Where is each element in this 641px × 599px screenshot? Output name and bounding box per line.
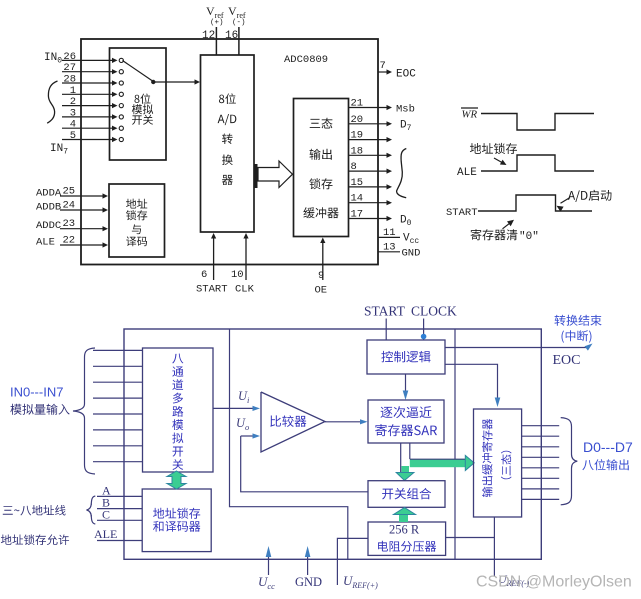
- svg-text:IN0: IN0: [44, 52, 62, 66]
- wire output D6: [522, 488, 560, 490]
- switch tree box: [368, 481, 445, 508]
- wire IN6 (pin 4): [62, 126, 123, 131]
- wire pin 16: [238, 27, 240, 55]
- wire buffer ref to ladder: [446, 517, 495, 538]
- label 转换结束: [554, 315, 601, 326]
- pin number 13: [383, 242, 396, 254]
- label CLOCK: [411, 304, 457, 319]
- wire control to SAR: [403, 374, 409, 400]
- svg-text:Uo: Uo: [236, 416, 249, 432]
- svg-text:10: 10: [231, 269, 244, 281]
- svg-text:3: 3: [70, 107, 76, 119]
- tri-state output latch box U-LATCH: [294, 99, 349, 237]
- pin number 17: [351, 209, 364, 221]
- svg-text:START: START: [196, 284, 228, 296]
- output buffer box: [474, 409, 522, 517]
- wire output D5: [522, 477, 560, 479]
- svg-text:9: 9: [318, 270, 324, 282]
- svg-text:18: 18: [351, 145, 364, 157]
- wire input IN1: [93, 365, 143, 367]
- label Vcc: [403, 233, 419, 247]
- label 地址锁存和译码器: [153, 508, 200, 532]
- label ALE (timing): [457, 167, 477, 179]
- svg-text:(+): (+): [210, 19, 224, 27]
- wire switch to A/D: [153, 79, 200, 84]
- svg-text:CSDN @MorleyOlsen: CSDN @MorleyOlsen: [476, 574, 632, 591]
- green double arrow mux-decoder: [167, 471, 186, 489]
- label D0---D7: [583, 439, 633, 455]
- svg-text:17: 17: [351, 209, 364, 221]
- svg-text:Msb: Msb: [396, 104, 415, 116]
- svg-text:6: 6: [201, 269, 207, 281]
- svg-text:ADDC: ADDC: [36, 220, 61, 232]
- svg-text:OE: OE: [315, 285, 328, 297]
- label START (bottom): [364, 304, 406, 319]
- label 输出缓冲寄存器 (rotated): [482, 419, 493, 497]
- svg-text:15: 15: [351, 177, 364, 189]
- 256R ladder box: [368, 522, 446, 555]
- svg-text:26: 26: [63, 51, 76, 63]
- svg-text:C: C: [102, 507, 110, 521]
- wire output D7: [522, 498, 560, 500]
- label Uref+: [343, 573, 378, 590]
- label 比较器: [270, 415, 306, 427]
- label 模拟量输入: [10, 404, 69, 415]
- pin number 21: [351, 98, 364, 110]
- pin number 22: [63, 235, 76, 247]
- wire output D4: [522, 467, 560, 469]
- label 地址锁存与译码: [126, 199, 147, 247]
- label OE: [315, 285, 328, 297]
- wire Uo feedback: [241, 436, 368, 492]
- pin number 7: [380, 60, 386, 72]
- pin number 25: [63, 186, 76, 198]
- svg-text:CLK: CLK: [235, 284, 255, 296]
- svg-text:23: 23: [63, 218, 76, 230]
- svg-text:4: 4: [70, 119, 76, 131]
- wire GND arrow: [305, 546, 311, 575]
- bus bar on A/D edge: [254, 164, 258, 188]
- svg-text:IN0---IN7: IN0---IN7: [10, 385, 63, 400]
- outer structure box: [124, 329, 541, 559]
- svg-text:D0: D0: [400, 215, 412, 229]
- label GND (bottom): [295, 575, 322, 589]
- pin number 26: [63, 51, 76, 63]
- label ALE (bottom): [94, 527, 117, 541]
- svg-text:ALE: ALE: [94, 527, 117, 541]
- svg-text:27: 27: [63, 62, 76, 74]
- svg-text:13: 13: [383, 242, 396, 254]
- svg-text:14: 14: [351, 193, 364, 205]
- wire OE (pin 9): [320, 238, 325, 281]
- pin number 27: [63, 62, 76, 74]
- wire input IN0: [93, 349, 143, 351]
- label START: [196, 284, 228, 296]
- annotation arrow to ALE edge: [494, 158, 507, 165]
- svg-text:ADDA: ADDA: [36, 188, 62, 200]
- wire data out (pin 19): [349, 137, 393, 142]
- label Msb: [396, 104, 415, 116]
- pin number 2: [70, 96, 76, 108]
- svg-text:12: 12: [202, 30, 215, 42]
- pin number 8: [351, 161, 357, 173]
- pin number 1: [70, 85, 76, 97]
- wire input IN7: [93, 461, 143, 463]
- pin number 16: [225, 30, 238, 42]
- annotation arrow to START rising edge: [503, 220, 515, 229]
- junction dot CLOCK: [421, 334, 427, 340]
- pin number 11: [383, 227, 396, 239]
- svg-text:WR: WR: [462, 109, 478, 121]
- wire A: [97, 495, 142, 497]
- label (三态) (rotated): [501, 451, 512, 480]
- svg-text:24: 24: [63, 200, 76, 212]
- input squiggle brace: [47, 81, 57, 123]
- wire Ucc: [266, 546, 272, 575]
- annotation arrow to START falling edge: [557, 198, 571, 212]
- wire ALE (pin 22): [60, 242, 108, 247]
- label 八通道多路模拟开关: [172, 354, 183, 470]
- pin number 23: [63, 218, 76, 230]
- hollow bus arrow: [258, 161, 293, 188]
- svg-text:START: START: [446, 207, 478, 219]
- svg-text:GND: GND: [295, 575, 322, 589]
- svg-text:EOC: EOC: [396, 69, 416, 81]
- label ADDC: [36, 220, 61, 232]
- wire input IN6: [93, 445, 143, 447]
- svg-text:1: 1: [70, 85, 76, 97]
- svg-text:Vcc: Vcc: [403, 233, 419, 247]
- svg-text:5: 5: [70, 130, 76, 142]
- svg-text:20: 20: [351, 114, 364, 126]
- svg-text:START: START: [364, 304, 406, 319]
- svg-text:11: 11: [383, 227, 396, 239]
- label Ucc: [258, 574, 275, 591]
- wire output D2: [522, 446, 560, 448]
- svg-text:D7: D7: [400, 120, 412, 134]
- label ADC0809: [284, 54, 328, 66]
- label Vref(-): [228, 4, 246, 27]
- svg-text:19: 19: [351, 130, 364, 142]
- svg-text:CLOCK: CLOCK: [411, 304, 457, 319]
- wire START down: [385, 319, 387, 341]
- long vertical wire: [454, 329, 456, 559]
- comparator triangle: [261, 392, 325, 452]
- green arrow SAR to output buffer: [410, 455, 474, 470]
- green arrow ladder to switch tree: [394, 508, 416, 523]
- svg-text:2: 2: [70, 96, 76, 108]
- svg-text:ALE: ALE: [457, 167, 477, 179]
- wire GND (pin 13): [378, 251, 400, 253]
- label ALE: [36, 237, 55, 249]
- label 地址锁存允许: [1, 534, 69, 545]
- wire IN0 (pin 26): [62, 58, 123, 63]
- svg-text:28: 28: [63, 74, 76, 86]
- wire output D1: [522, 435, 560, 437]
- output squiggle brace: [397, 149, 407, 198]
- label 开关组合: [382, 488, 431, 500]
- svg-text:(-): (-): [232, 19, 246, 27]
- svg-text:D0---D7: D0---D7: [583, 439, 633, 455]
- svg-text:16: 16: [225, 30, 238, 42]
- wire Uref+: [337, 538, 368, 585]
- wire ADDB (pin 24): [60, 207, 108, 212]
- svg-text:21: 21: [351, 98, 364, 110]
- label 八位输出: [582, 459, 628, 470]
- wire ADDA (pin 25): [60, 193, 108, 198]
- label Vref(+): [206, 4, 224, 27]
- svg-text:EOC: EOC: [553, 353, 581, 368]
- wire Uo into comparator: [241, 433, 260, 438]
- pin number 20: [351, 114, 364, 126]
- wire comparator to SAR: [325, 419, 368, 424]
- pin number 9: [318, 270, 324, 282]
- svg-text:7: 7: [380, 60, 386, 72]
- svg-text:25: 25: [63, 186, 76, 198]
- output brace: [561, 418, 578, 505]
- svg-text:8: 8: [351, 161, 357, 173]
- wire START (pin 6): [211, 233, 216, 280]
- svg-text:"0": "0": [519, 231, 539, 243]
- waveform ALE: [481, 155, 594, 171]
- wire input IN5: [93, 429, 143, 431]
- wire IN5 (pin 3): [62, 114, 123, 119]
- label CLK: [235, 284, 255, 296]
- pin number 19: [351, 130, 364, 142]
- label 控制逻辑: [381, 351, 430, 363]
- wire Vcc (pin 11): [378, 236, 400, 238]
- label 256 R 电阻分压器: [378, 523, 436, 552]
- label EOC: [396, 69, 416, 81]
- address latch decoder box (bottom): [142, 489, 211, 552]
- pin number 5: [70, 130, 76, 142]
- wire control to output buffer: [445, 364, 500, 407]
- waveform WR: [481, 114, 594, 131]
- wire data out (pin 15): [349, 184, 393, 189]
- wire data out (pin 8): [349, 169, 393, 174]
- wire B: [97, 508, 142, 510]
- wire clock branch: [230, 329, 348, 559]
- label IN0: [44, 52, 62, 66]
- address brace: [87, 496, 96, 524]
- wire pin 12: [215, 27, 217, 55]
- wire Uref- down: [493, 538, 495, 577]
- svg-text:ALE: ALE: [36, 237, 55, 249]
- junction dot: [151, 80, 155, 84]
- pin number 12: [202, 30, 215, 42]
- wire IN1 (pin 27): [62, 69, 123, 74]
- 8-channel mux box: [143, 348, 214, 472]
- wire C: [97, 519, 142, 521]
- wire CLK (pin 10): [243, 233, 248, 280]
- svg-text:ADDB: ADDB: [36, 202, 61, 214]
- wire output D3: [522, 456, 560, 458]
- label (中断): [561, 330, 591, 342]
- pin number 15: [351, 177, 364, 189]
- label 寄存器清 "0": [471, 229, 539, 243]
- label 三~八地址线: [3, 505, 66, 516]
- label A: [102, 483, 111, 497]
- control logic box: [367, 340, 445, 374]
- label 逐次逼近寄存器SAR: [375, 406, 437, 436]
- svg-text:Vref: Vref: [206, 4, 224, 20]
- label IN0---IN7: [10, 385, 63, 400]
- pin number 18: [351, 145, 364, 157]
- wire IN3 (pin 1): [62, 92, 123, 97]
- label A/D启动: [568, 190, 612, 202]
- svg-text:Ui: Ui: [238, 389, 250, 405]
- wire input IN2: [93, 381, 143, 383]
- label IN7: [50, 143, 68, 157]
- pin number 28: [63, 74, 76, 86]
- svg-text:GND: GND: [402, 248, 421, 260]
- label D0: [400, 215, 412, 229]
- label Ui: [238, 389, 250, 405]
- pin number 14: [351, 193, 364, 205]
- outer box ADC0809: [81, 39, 378, 265]
- svg-text:Ucc: Ucc: [258, 574, 275, 591]
- SAR box: [368, 400, 444, 443]
- label C: [102, 507, 110, 521]
- svg-text:ADC0809: ADC0809: [284, 54, 328, 66]
- SAR shaft wires: [401, 443, 410, 472]
- label 三态输出锁存缓冲器: [303, 118, 338, 219]
- pin number 3: [70, 107, 76, 119]
- pin number 10: [231, 269, 244, 281]
- label EOC (bottom): [553, 353, 581, 368]
- label START (timing): [446, 207, 478, 219]
- svg-text:22: 22: [63, 235, 76, 247]
- label ADDB: [36, 202, 61, 214]
- svg-text:Vref: Vref: [228, 4, 246, 20]
- wire output D0: [522, 425, 560, 427]
- wire data out (pin 21): [349, 105, 393, 110]
- label GND: [402, 248, 421, 260]
- wire data out (pin 17): [349, 216, 393, 221]
- wire input IN3: [93, 397, 143, 399]
- label ADDA: [36, 188, 62, 200]
- wire input IN4: [93, 413, 143, 415]
- wire EOC out: [445, 344, 593, 351]
- label D7: [400, 120, 412, 134]
- label Uref-: [498, 572, 530, 588]
- wire data out (pin 14): [349, 200, 393, 205]
- pin number 24: [63, 200, 76, 212]
- svg-text:256 R: 256 R: [389, 523, 420, 537]
- wire ALE: [97, 540, 142, 542]
- label Uo: [236, 416, 249, 432]
- svg-text:IN7: IN7: [50, 143, 68, 157]
- wire IN7 (pin 5): [62, 137, 123, 142]
- label 8位 A/D 转换器: [218, 93, 237, 185]
- wire EOC (pin 7): [378, 69, 392, 74]
- label WR (overline): [461, 108, 478, 121]
- wire IN2 (pin 28): [62, 80, 123, 85]
- wire CLOCK down: [423, 319, 425, 341]
- watermark CSDN: [476, 574, 632, 591]
- wire ADDC (pin 23): [60, 226, 108, 231]
- svg-text:UREF(+): UREF(+): [343, 573, 378, 590]
- wire data out (pin 20): [349, 121, 393, 126]
- green arrow SAR to switch tree: [396, 466, 414, 481]
- label 8位模拟开关: [132, 94, 153, 125]
- analog switch box U-SW: [110, 48, 167, 160]
- label B: [102, 496, 110, 510]
- label 地址锁存: [470, 143, 517, 154]
- pin number 6: [201, 269, 207, 281]
- wire IN4 (pin 2): [62, 103, 123, 108]
- A/D converter box U-AD: [201, 55, 255, 232]
- address latch & decoder box U-DEC: [109, 184, 165, 257]
- waveform START: [478, 195, 592, 211]
- switch wiper arm: [123, 61, 154, 82]
- wire data out (pin 18): [349, 153, 393, 158]
- input brace: [73, 348, 95, 474]
- pin number 4: [70, 119, 76, 131]
- wire Ui: [213, 406, 260, 411]
